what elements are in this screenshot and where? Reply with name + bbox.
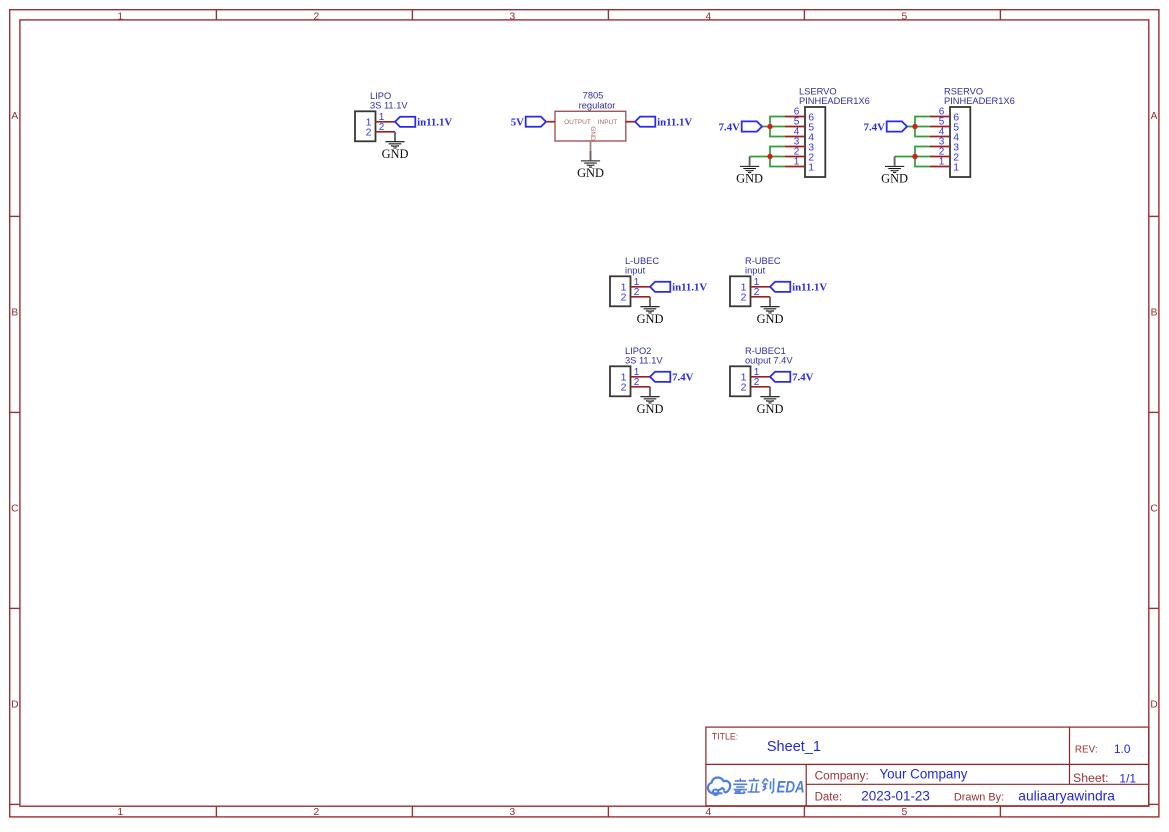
svg-text:2: 2	[634, 287, 640, 298]
svg-text:1: 1	[794, 157, 800, 168]
LIPO pin 2 wire	[376, 131, 396, 133]
svg-text:PINHEADER1X6: PINHEADER1X6	[799, 96, 870, 106]
svg-text:Company:: Company:	[815, 769, 869, 783]
connector R-UBEC1	[730, 346, 793, 396]
svg-text:R-UBEC1: R-UBEC1	[745, 346, 786, 356]
net flag in11.1V on R-UBEC pin 1	[770, 282, 790, 292]
net flag in11.1V on L-UBEC pin 1	[650, 282, 670, 292]
svg-text:2023-01-23: 2023-01-23	[861, 789, 930, 804]
ground on LIPO pin 2	[385, 132, 404, 148]
svg-text:2: 2	[754, 287, 760, 298]
svg-text:3: 3	[510, 807, 516, 818]
RSERVO pin 6 wire stub	[930, 116, 950, 118]
svg-text:OUTPUT: OUTPUT	[564, 119, 591, 126]
svg-text:D: D	[11, 700, 18, 711]
ground on LIPO2 pin 2	[640, 387, 659, 403]
svg-text:C: C	[1150, 503, 1157, 514]
connector L-UBEC	[610, 256, 659, 306]
LSERVO pin 2 wire stub	[785, 156, 805, 158]
svg-text:7.4V: 7.4V	[719, 121, 740, 133]
net flag 7.4V on LIPO2 pin 1	[650, 372, 670, 382]
svg-text:TITLE:: TITLE:	[712, 732, 738, 742]
connector LIPO2	[610, 346, 663, 396]
ground on L-UBEC pin 2	[640, 297, 659, 313]
junction on RSERVO pin 5	[912, 124, 917, 129]
svg-text:5V: 5V	[511, 117, 524, 129]
svg-text:INPUT: INPUT	[598, 119, 618, 126]
svg-text:B: B	[11, 307, 18, 318]
connector RSERVO (RSERVO)	[944, 86, 1015, 177]
connector LIPO	[355, 91, 408, 141]
junction on LSERVO pin 5	[767, 124, 772, 129]
L-UBEC pin 1 wire	[631, 286, 651, 288]
svg-text:2: 2	[754, 377, 760, 388]
svg-text:Drawn By:: Drawn By:	[954, 791, 1004, 803]
R-UBEC pin 1 wire	[751, 286, 771, 288]
RSERVO pin 1 wire stub	[930, 166, 950, 168]
LSERVO pin 4 wire stub	[785, 136, 805, 138]
net flag in11.1V on 7805 input	[635, 117, 655, 127]
svg-text:LIPO2: LIPO2	[625, 346, 651, 356]
svg-text:A: A	[11, 111, 18, 122]
ground on RSERVO	[885, 157, 904, 173]
svg-text:GND: GND	[637, 312, 664, 326]
R-UBEC pin 2 wire	[751, 296, 771, 298]
svg-text:4: 4	[706, 807, 712, 818]
RSERVO pin 3 wire stub	[930, 146, 950, 148]
svg-text:Your Company: Your Company	[879, 767, 967, 782]
net flag 7.4V on RSERVO	[887, 121, 907, 131]
ground on R-UBEC1 pin 2	[760, 387, 779, 403]
svg-text:regulator: regulator	[579, 100, 616, 110]
LIPO2 pin 2 wire	[631, 386, 651, 388]
svg-text:in11.1V: in11.1V	[417, 117, 452, 129]
RSERVO pin 2 wire stub	[930, 156, 950, 158]
svg-text:LIPO: LIPO	[370, 91, 391, 101]
svg-text:in11.1V: in11.1V	[672, 282, 707, 294]
svg-text:PINHEADER1X6: PINHEADER1X6	[944, 96, 1015, 106]
7805 GND pin wire	[590, 141, 592, 151]
svg-text:R-UBEC: R-UBEC	[745, 256, 781, 266]
svg-text:2: 2	[366, 127, 372, 139]
svg-text:GND: GND	[577, 166, 604, 180]
svg-text:GND: GND	[881, 172, 908, 186]
svg-text:Sheet:: Sheet:	[1073, 771, 1109, 785]
svg-text:in11.1V: in11.1V	[657, 117, 692, 129]
RSERVO wire pins 3-2-1 bus	[895, 147, 930, 167]
svg-text:input: input	[745, 266, 766, 276]
svg-text:Date:: Date:	[815, 791, 843, 803]
R-UBEC1 pin 1 wire	[751, 376, 771, 378]
svg-text:1/1: 1/1	[1119, 772, 1136, 786]
R-UBEC1 pin 2 wire	[751, 386, 771, 388]
svg-text:Sheet_1: Sheet_1	[767, 739, 821, 755]
svg-text:LSERVO: LSERVO	[799, 86, 837, 96]
svg-text:GND: GND	[736, 172, 763, 186]
svg-text:2: 2	[314, 11, 320, 22]
LSERVO pin 3 wire stub	[785, 146, 805, 148]
svg-text:output 7.4V: output 7.4V	[745, 356, 793, 366]
7805 INPUT pin wire	[626, 121, 635, 123]
svg-text:4: 4	[706, 11, 712, 22]
svg-text:3S 11.1V: 3S 11.1V	[625, 356, 663, 366]
svg-text:1: 1	[117, 807, 123, 818]
RSERVO pin 5 wire stub	[930, 126, 950, 128]
svg-text:C: C	[11, 503, 18, 514]
net flag 7.4V on R-UBEC1 pin 1	[770, 372, 790, 382]
svg-text:1.0: 1.0	[1114, 742, 1131, 756]
RSERVO pin 4 wire stub	[930, 136, 950, 138]
net flag in11.1V on LIPO pin 1	[395, 117, 415, 127]
svg-text:5: 5	[902, 11, 908, 22]
RSERVO wire pins 6-5-4 bus	[907, 117, 930, 137]
net flag 5V	[526, 117, 546, 127]
svg-text:GND: GND	[589, 126, 596, 141]
ground on LSERVO	[740, 157, 759, 173]
JLC EDA logo	[708, 778, 805, 797]
junction on RSERVO pin 2	[912, 154, 917, 159]
svg-text:GND: GND	[637, 402, 664, 416]
svg-text:GND: GND	[382, 147, 409, 161]
svg-text:B: B	[1151, 307, 1158, 318]
svg-text:2: 2	[621, 292, 627, 304]
svg-text:7.4V: 7.4V	[792, 372, 813, 384]
LSERVO pin 1 wire stub	[785, 166, 805, 168]
connector R-UBEC	[730, 256, 781, 306]
svg-text:7.4V: 7.4V	[864, 121, 885, 133]
regulator U 7805	[555, 91, 626, 141]
svg-text:2: 2	[621, 382, 627, 394]
svg-text:7805: 7805	[583, 91, 604, 101]
svg-text:input: input	[625, 266, 646, 276]
svg-text:1: 1	[117, 11, 123, 22]
title block	[706, 727, 1149, 806]
svg-text:EDA: EDA	[777, 778, 805, 796]
svg-text:RSERVO: RSERVO	[944, 86, 983, 96]
7805 OUTPUT pin wire	[546, 121, 555, 123]
LIPO pin 1 wire	[376, 121, 396, 123]
svg-text:2: 2	[314, 807, 320, 818]
svg-text:7.4V: 7.4V	[672, 372, 693, 384]
ground on 7805	[581, 151, 600, 167]
LSERVO wire pins 6-5-4 bus	[762, 117, 785, 137]
svg-text:D: D	[1150, 700, 1157, 711]
svg-text:2: 2	[741, 292, 747, 304]
svg-text:3S 11.1V: 3S 11.1V	[370, 101, 408, 111]
junction on LSERVO pin 2	[767, 154, 772, 159]
connector LSERVO (LSERVO)	[799, 86, 870, 177]
LSERVO wire pins 3-2-1 bus	[750, 147, 785, 167]
ground on R-UBEC pin 2	[760, 297, 779, 313]
L-UBEC pin 2 wire	[631, 296, 651, 298]
svg-text:2: 2	[741, 382, 747, 394]
svg-text:GND: GND	[757, 402, 784, 416]
svg-text:A: A	[1151, 111, 1158, 122]
svg-text:5: 5	[902, 807, 908, 818]
svg-text:2: 2	[379, 122, 385, 133]
svg-text:1: 1	[939, 157, 945, 168]
svg-text:3: 3	[510, 11, 516, 22]
svg-text:1: 1	[808, 162, 814, 174]
svg-text:GND: GND	[757, 312, 784, 326]
net flag 7.4V on LSERVO	[742, 121, 762, 131]
svg-text:1: 1	[953, 162, 959, 174]
LSERVO pin 5 wire stub	[785, 126, 805, 128]
svg-text:auliaaryawindra: auliaaryawindra	[1018, 789, 1115, 804]
svg-text:in11.1V: in11.1V	[792, 282, 827, 294]
svg-text:REV:: REV:	[1075, 745, 1098, 756]
svg-text:L-UBEC: L-UBEC	[625, 256, 659, 266]
svg-text:2: 2	[634, 377, 640, 388]
LSERVO pin 6 wire stub	[785, 116, 805, 118]
LIPO2 pin 1 wire	[631, 376, 651, 378]
